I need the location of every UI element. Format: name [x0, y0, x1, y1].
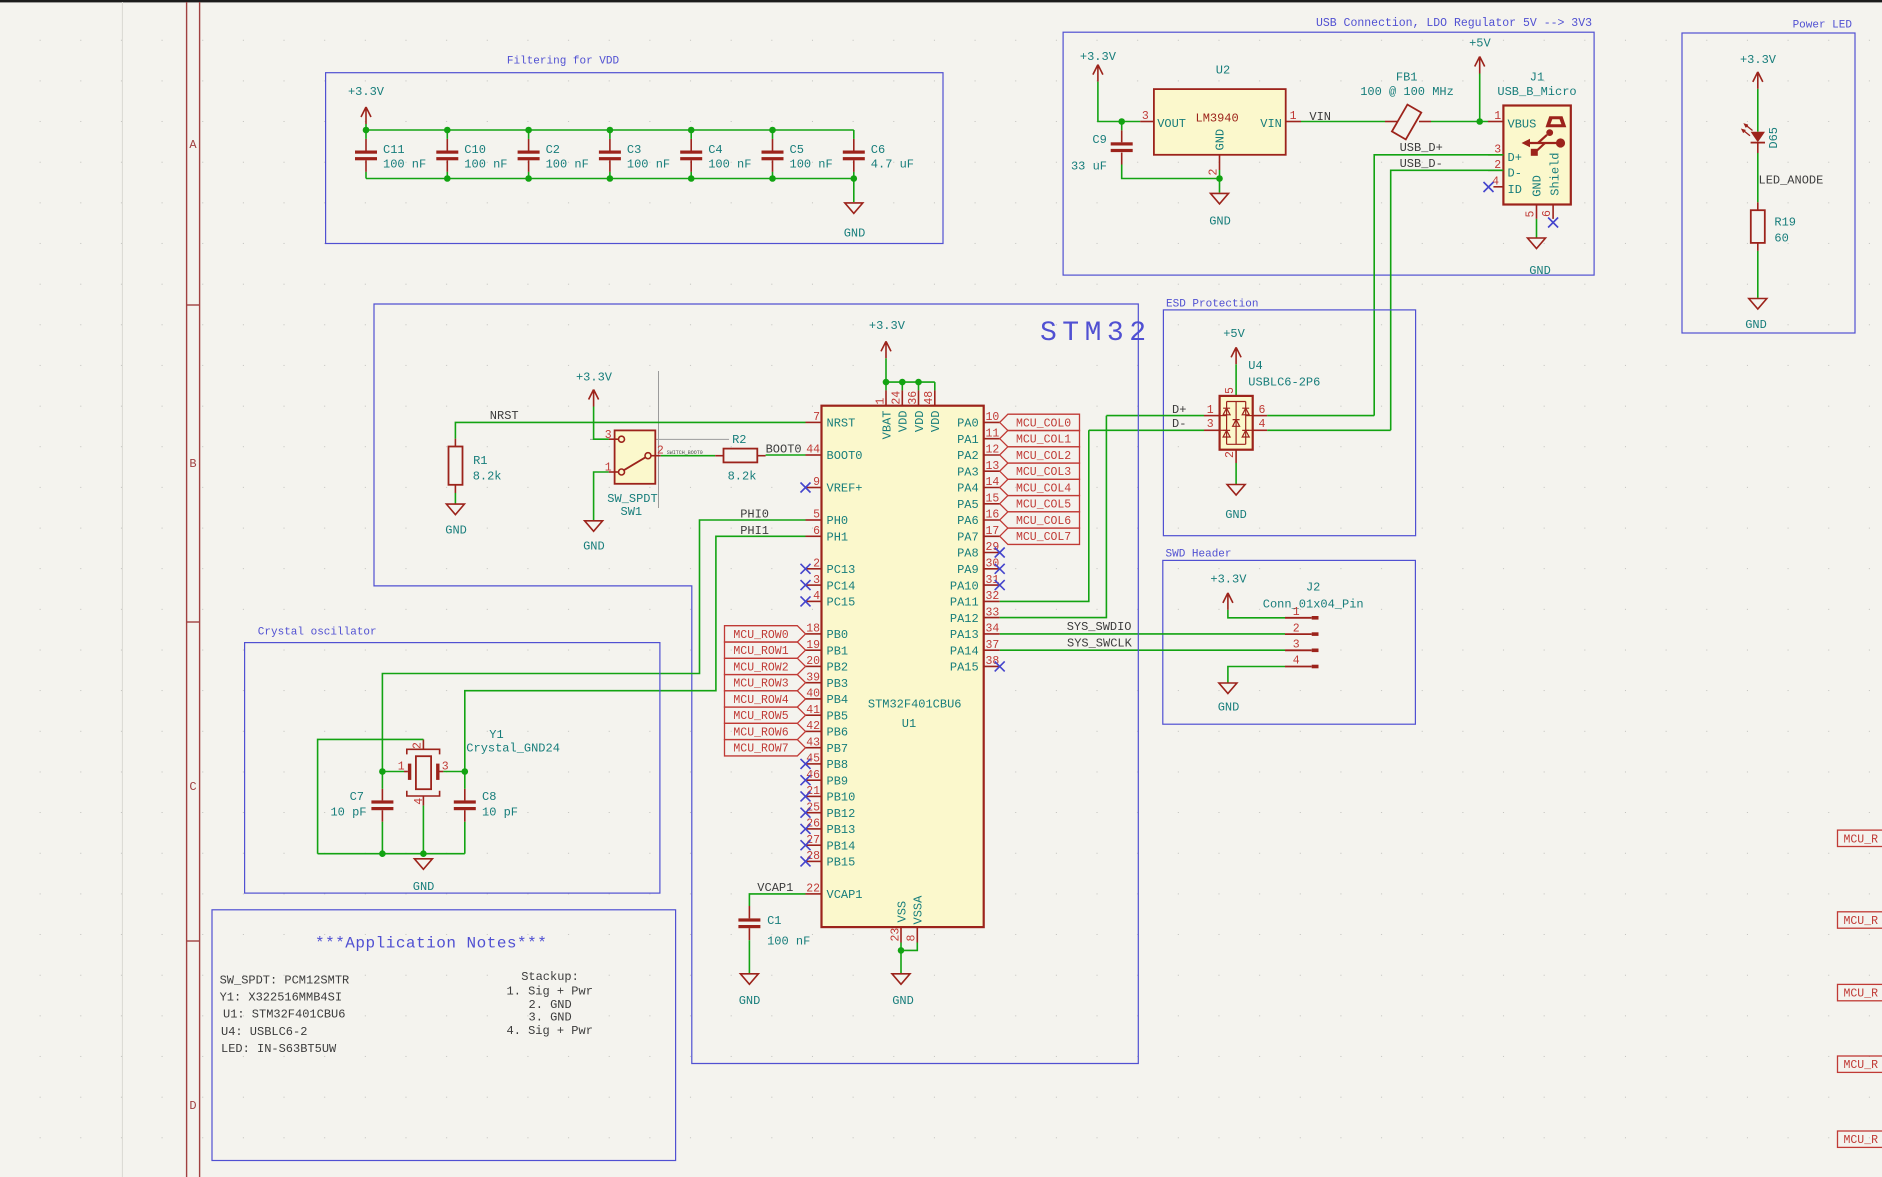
svg-text:29: 29: [986, 541, 1000, 554]
svg-text:NRST: NRST: [827, 417, 856, 431]
LED D65: [1751, 132, 1765, 143]
svg-text:GND: GND: [1225, 508, 1247, 522]
J1 pin 1 VBUS: [1488, 121, 1503, 123]
no-connect U1 PC14: [801, 580, 811, 590]
wire SYS_SWDIO to J2: [1000, 633, 1285, 635]
global label MCU_ROW4: [725, 691, 806, 707]
power +3.3V (LDO output): [1093, 65, 1103, 82]
svg-text:Y1: X322516MMB4SI: Y1: X322516MMB4SI: [220, 991, 342, 1005]
wire +3.3V to VDD rail: [885, 358, 887, 382]
svg-text:PA13: PA13: [950, 628, 979, 642]
global label MCU_ROW5: [725, 707, 806, 723]
global label MCU_COL4: [1000, 479, 1080, 495]
svg-text:C8: C8: [482, 790, 496, 804]
svg-text:VDD: VDD: [897, 411, 911, 433]
svg-text:GND: GND: [1531, 175, 1545, 197]
global label MCU_ROW6: [725, 723, 806, 739]
no-connect U1 PB13: [801, 824, 811, 834]
svg-text:SW1: SW1: [621, 505, 643, 519]
svg-text:7: 7: [813, 411, 820, 424]
wire +3.3V to SW1 pin3: [594, 407, 609, 440]
capacitor C9: [1111, 142, 1133, 145]
svg-text:MCU_R: MCU_R: [1844, 1059, 1879, 1072]
power +5V (USB): [1475, 57, 1485, 74]
svg-text:2: 2: [1293, 622, 1300, 635]
svg-text:STM32F401CBU6: STM32F401CBU6: [868, 698, 962, 712]
no-connect U1 PC15: [801, 596, 811, 606]
capacitor C4: [680, 151, 702, 154]
svg-text:LM3940: LM3940: [1196, 112, 1239, 126]
svg-text:SWD Header: SWD Header: [1166, 549, 1232, 561]
ground (SWD): [1219, 683, 1237, 694]
svg-text:43: 43: [806, 736, 820, 749]
wire VDD rail: [886, 381, 935, 383]
svg-text:PB2: PB2: [827, 661, 849, 675]
wire VIN to FB1: [1301, 121, 1385, 123]
svg-text:PB13: PB13: [827, 823, 856, 837]
U4 pin 2 GND: [1235, 450, 1237, 463]
no-connect U1 PA10: [995, 580, 1005, 590]
U1 pin 39 PB3: [806, 682, 822, 684]
svg-text:PH1: PH1: [827, 531, 849, 545]
svg-text:MCU_ROW1: MCU_ROW1: [733, 645, 788, 658]
svg-text:8: 8: [906, 935, 919, 942]
global label MCU_ROW2: [725, 658, 806, 674]
svg-text:18: 18: [806, 623, 820, 636]
svg-text:6: 6: [1259, 404, 1266, 417]
svg-text:R19: R19: [1774, 215, 1796, 229]
frame tick A/B: [187, 304, 200, 306]
wire USB_D+: [1374, 155, 1503, 416]
svg-text:100 @ 100 MHz: 100 @ 100 MHz: [1360, 85, 1454, 99]
wire C11 leads: [365, 130, 367, 139]
junction top C5: [769, 127, 776, 134]
ground (LED): [1749, 299, 1767, 310]
svg-text:100 nF: 100 nF: [627, 158, 670, 172]
svg-text:MCU_R: MCU_R: [1844, 915, 1879, 928]
wire C2 leads: [528, 130, 530, 139]
U1 pin 32 PA11: [984, 600, 1000, 602]
Y1 pin 1: [404, 771, 408, 773]
U1 pin 46 PB9: [806, 779, 822, 781]
svg-text:1. Sig + Pwr: 1. Sig + Pwr: [507, 985, 593, 999]
svg-text:6: 6: [813, 525, 820, 538]
svg-text:VBAT: VBAT: [880, 411, 894, 440]
box Power LED: [1682, 33, 1855, 333]
J2 pin 4: [1285, 666, 1312, 668]
svg-text:D65: D65: [1767, 127, 1781, 149]
svg-text:41: 41: [806, 704, 820, 717]
svg-text:21: 21: [806, 785, 820, 798]
sheet frame top border: [0, 0, 1882, 2]
global label MCU_COL5: [1000, 496, 1080, 512]
svg-text:3: 3: [1207, 418, 1214, 431]
svg-text:22: 22: [806, 883, 820, 896]
svg-text:5: 5: [1224, 387, 1237, 394]
no-connect U1 PB10: [801, 791, 811, 801]
svg-text:24: 24: [891, 391, 904, 405]
box Crystal oscillator: [245, 643, 660, 894]
U4 pin 4: [1253, 429, 1268, 431]
svg-text:+3.3V: +3.3V: [869, 319, 906, 333]
capacitor C10: [436, 151, 458, 154]
U1 pin 12 PA2: [984, 454, 1000, 456]
svg-text:100 nF: 100 nF: [383, 158, 426, 172]
wire C6 leads: [853, 130, 855, 139]
svg-text:8.2k: 8.2k: [473, 470, 502, 484]
U4 pin 3 (D- in): [1204, 429, 1220, 431]
svg-text:PB7: PB7: [827, 742, 849, 756]
ground (U1 VSS): [892, 974, 910, 985]
wire FB1 to VBUS: [1431, 121, 1488, 123]
svg-text:PA1: PA1: [957, 433, 979, 447]
svg-text:GND: GND: [1529, 264, 1551, 278]
svg-text:100 nF: 100 nF: [708, 158, 751, 172]
svg-text:GND: GND: [844, 227, 866, 241]
J1 pin 3 D+: [1488, 154, 1503, 156]
svg-text:VBUS: VBUS: [1508, 117, 1537, 131]
junction rail C7: [379, 850, 386, 857]
svg-text:2: 2: [412, 742, 425, 749]
wire C6 to GND: [853, 179, 855, 203]
svg-text:PA3: PA3: [957, 465, 979, 479]
U1 pin 13 PA3: [984, 470, 1000, 472]
svg-text:GND: GND: [445, 524, 467, 538]
no-connect U1 PB9: [801, 775, 811, 785]
global label MCU_COL3: [1000, 463, 1080, 479]
svg-text:MCU_ROW3: MCU_ROW3: [733, 678, 788, 691]
no-connect U1 PA9: [995, 564, 1005, 574]
svg-text:MCU_ROW7: MCU_ROW7: [733, 743, 788, 756]
svg-text:ESD Protection: ESD Protection: [1166, 299, 1258, 311]
svg-text:38: 38: [986, 655, 1000, 668]
svg-text:GND: GND: [1745, 318, 1767, 332]
svg-text:PA12: PA12: [950, 612, 979, 626]
U1 pin 16 PA6: [984, 519, 1000, 521]
svg-text:VIN: VIN: [1260, 117, 1282, 131]
no-connect J1 Shield: [1548, 218, 1558, 228]
global label MCU_COL2: [1000, 447, 1080, 463]
junction bottom C2: [525, 175, 532, 182]
svg-text:MCU_R: MCU_R: [1844, 988, 1879, 1001]
global label MCU_R (edge 2): [1838, 912, 1882, 928]
global label MCU_COL0: [1000, 414, 1080, 430]
resistor R2: [724, 449, 758, 463]
svg-text:34: 34: [986, 623, 1000, 636]
box Application Notes: [212, 910, 676, 1161]
svg-text:PB3: PB3: [827, 677, 849, 691]
svg-text:27: 27: [806, 834, 820, 847]
svg-text:44: 44: [806, 444, 820, 457]
global label MCU_ROW0: [725, 626, 806, 642]
no-connect U1 PB15: [801, 856, 811, 866]
svg-text:USB_D+: USB_D+: [1400, 141, 1443, 155]
svg-text:***Application Notes***: ***Application Notes***: [315, 935, 547, 953]
junction C8: [462, 768, 469, 775]
wire USB_D-: [1391, 170, 1504, 430]
ground (R1): [446, 504, 464, 514]
svg-text:PA15: PA15: [950, 661, 979, 675]
J2 pin 1: [1285, 617, 1312, 619]
svg-text:GND: GND: [739, 994, 761, 1008]
J1 pin 6 Shield: [1552, 205, 1554, 219]
U1 top pin 36 VDD: [918, 382, 920, 390]
wire C5 leads: [772, 130, 774, 139]
U1 pin 34 PA13: [984, 633, 1000, 635]
power +3.3V (filtering): [361, 107, 371, 124]
svg-text:12: 12: [986, 444, 1000, 457]
svg-text:U4: U4: [1248, 359, 1262, 373]
svg-text:C3: C3: [627, 143, 641, 157]
U1 pin 2 PC13: [806, 568, 822, 570]
no-connect U1 PA15: [995, 661, 1005, 671]
svg-text:A: A: [189, 138, 197, 152]
svg-text:Crystal_GND24: Crystal_GND24: [466, 742, 560, 756]
svg-text:C7: C7: [350, 790, 364, 804]
U1 pin 25 PB12: [806, 812, 822, 814]
svg-text:Filtering for VDD: Filtering for VDD: [507, 56, 620, 68]
U1 pin 40 PB4: [806, 698, 822, 700]
svg-text:MCU_COL1: MCU_COL1: [1016, 434, 1071, 447]
svg-text:100 nF: 100 nF: [790, 158, 833, 172]
svg-text:MCU_COL3: MCU_COL3: [1016, 466, 1071, 479]
no-connect U1 PB14: [801, 840, 811, 850]
wire PA11 to U4 pin3: [1089, 429, 1204, 431]
ic U4 USBLC6-2P6: [1220, 396, 1253, 450]
svg-text:PA7: PA7: [957, 531, 979, 545]
svg-text:32: 32: [986, 590, 1000, 603]
junction bottom C6: [851, 175, 858, 182]
wire J2 pin4 to GND: [1228, 667, 1285, 683]
ground (ESD): [1227, 485, 1245, 496]
svg-text:SYS_SWDIO: SYS_SWDIO: [1067, 620, 1132, 634]
capacitor C3: [599, 151, 621, 154]
wire SW1 pin1 to GND: [594, 472, 609, 520]
svg-text:4. Sig + Pwr: 4. Sig + Pwr: [507, 1024, 593, 1038]
svg-text:2: 2: [813, 558, 820, 571]
U1 pin 8 VSSA: [916, 927, 918, 942]
U1 pin 28 PB15: [806, 860, 822, 862]
U1 pin 15 PA5: [984, 503, 1000, 505]
svg-text:PB0: PB0: [827, 628, 849, 642]
svg-text:10 pF: 10 pF: [330, 805, 366, 819]
svg-text:C4: C4: [708, 143, 722, 157]
svg-text:MCU_ROW0: MCU_ROW0: [733, 629, 788, 642]
wire C3 leads: [609, 130, 611, 139]
svg-text:8.2k: 8.2k: [728, 469, 757, 483]
global label MCU_ROW7: [725, 740, 806, 756]
ground (C1): [740, 974, 758, 985]
global label MCU_R (edge 1): [1838, 830, 1882, 846]
U4 pin 6: [1253, 415, 1268, 417]
U1 pin 26 PB13: [806, 828, 822, 830]
svg-text:PB6: PB6: [827, 726, 849, 740]
svg-text:33 uF: 33 uF: [1071, 160, 1107, 174]
no-connect J1 ID: [1484, 182, 1494, 192]
svg-text:37: 37: [986, 639, 1000, 652]
wire VSS to GND: [900, 943, 902, 974]
svg-text:GND: GND: [1214, 129, 1228, 151]
svg-text:USBLC6-2P6: USBLC6-2P6: [1248, 376, 1320, 390]
svg-text:U1: STM32F401CBU6: U1: STM32F401CBU6: [223, 1008, 345, 1022]
wire LED to R19: [1757, 153, 1759, 202]
Y1 pin 2: [422, 739, 424, 749]
U1 pin 42 PB6: [806, 730, 822, 732]
wire C10 leads: [446, 130, 448, 139]
svg-text:MCU_COL0: MCU_COL0: [1016, 417, 1071, 430]
svg-text:23: 23: [889, 928, 902, 942]
wire VSSA join: [901, 943, 917, 951]
junction C7: [379, 768, 386, 775]
svg-text:C11: C11: [383, 143, 405, 157]
svg-text:C6: C6: [871, 143, 885, 157]
svg-text:48: 48: [923, 391, 936, 405]
junction top C4: [688, 127, 695, 134]
svg-text:+3.3V: +3.3V: [1080, 50, 1117, 64]
junction VDD 1: [883, 379, 890, 386]
svg-text:J2: J2: [1306, 580, 1320, 594]
wire +5V to VBUS: [1479, 74, 1481, 122]
wire bottom rail: [366, 178, 854, 180]
U1 pin 30 PA9: [984, 568, 1000, 570]
svg-text:PA8: PA8: [957, 547, 979, 561]
svg-text:2: 2: [1224, 451, 1237, 458]
box Filtering for VDD: [326, 73, 943, 244]
svg-text:+5V: +5V: [1223, 327, 1245, 341]
svg-text:16: 16: [986, 509, 1000, 522]
svg-text:R2: R2: [732, 433, 746, 447]
wire +3.3V to VOUT: [1098, 82, 1140, 122]
svg-text:MCU_R: MCU_R: [1844, 833, 1879, 846]
U1 top pin 48 VDD: [934, 382, 936, 390]
U1 top pin 1 VBAT: [885, 382, 887, 390]
svg-text:MCU_COL7: MCU_COL7: [1016, 531, 1071, 544]
junction C9 top: [1118, 118, 1125, 125]
svg-text:11: 11: [986, 427, 1000, 440]
junction top C10: [444, 127, 451, 134]
svg-text:5: 5: [1525, 211, 1538, 218]
wire +5V to U4: [1235, 364, 1237, 396]
svg-text:PB1: PB1: [827, 644, 849, 658]
wire SYS_SWCLK to J2: [1000, 649, 1285, 651]
capacitor C7: [371, 800, 393, 803]
switch SW1 SW_SPDT: [615, 430, 656, 483]
U1 pin 17 PA7: [984, 535, 1000, 537]
svg-text:4: 4: [813, 590, 820, 603]
ferrite bead FB1: [1385, 121, 1397, 123]
svg-text:2: 2: [1208, 169, 1221, 176]
junction top C11: [363, 127, 370, 134]
J2 pin 2: [1285, 633, 1312, 635]
wire crystal pin4 to rail: [422, 806, 424, 854]
U1 pin 23 VSS: [900, 927, 902, 942]
svg-text:42: 42: [806, 720, 820, 733]
svg-text:VREF+: VREF+: [827, 482, 863, 496]
sheet margin line: [121, 2, 123, 1177]
svg-text:GND: GND: [892, 994, 914, 1008]
svg-text:GND: GND: [1218, 701, 1240, 715]
wire J1 GND: [1536, 219, 1538, 238]
svg-text:+3.3V: +3.3V: [1740, 53, 1777, 67]
svg-text:1: 1: [874, 398, 887, 405]
svg-text:PB4: PB4: [827, 693, 849, 707]
svg-text:14: 14: [986, 476, 1000, 489]
svg-text:PA11: PA11: [950, 596, 979, 610]
U2 pin 2 GND: [1219, 155, 1221, 170]
svg-text:PA6: PA6: [957, 514, 979, 528]
global label MCU_ROW1: [725, 642, 806, 658]
wire U4 pin6 to USB_D+: [1267, 415, 1374, 417]
junction bottom C3: [607, 175, 614, 182]
svg-text:PC15: PC15: [827, 596, 856, 610]
svg-text:NRST: NRST: [490, 409, 519, 423]
svg-text:4: 4: [1259, 418, 1266, 431]
svg-text:3: 3: [605, 429, 612, 442]
svg-text:R1: R1: [473, 454, 487, 468]
wire C1 to GND: [748, 940, 750, 973]
resistor R19: [1751, 210, 1765, 243]
wire PH0 net to crystal: [382, 520, 805, 772]
frame tick C/D: [187, 940, 200, 942]
junction +5V VBUS: [1476, 118, 1483, 125]
no-connect U1 PB8: [801, 759, 811, 769]
J2 pin 3: [1285, 649, 1312, 651]
power +3.3V (BOOT0 switch): [589, 390, 599, 407]
svg-text:3: 3: [1293, 639, 1300, 652]
frame vertical line 1: [186, 2, 188, 1177]
U1 pin 22 VCAP1: [806, 893, 822, 895]
U4 internal diodes: [1220, 402, 1253, 445]
svg-text:PB15: PB15: [827, 856, 856, 870]
U1 pin 37 PA14: [984, 649, 1000, 651]
capacitor C1: [738, 918, 760, 921]
svg-text:PB10: PB10: [827, 791, 856, 805]
U1 pin 21 PB10: [806, 795, 822, 797]
svg-text:PA2: PA2: [957, 449, 979, 463]
svg-text:J1: J1: [1530, 71, 1544, 85]
svg-text:MCU_R: MCU_R: [1844, 1134, 1879, 1147]
svg-text:U4: USBLC6-2: U4: USBLC6-2: [221, 1025, 307, 1039]
svg-text:D+: D+: [1508, 151, 1522, 165]
ground (J1): [1528, 238, 1546, 249]
wire C4 leads: [690, 130, 692, 139]
frame vertical line 2: [199, 2, 201, 1177]
wire crystal ground rail: [318, 853, 465, 855]
junction VDD 2: [899, 379, 906, 386]
svg-text:30: 30: [986, 558, 1000, 571]
global label MCU_R (edge 5): [1838, 1131, 1882, 1147]
svg-text:26: 26: [806, 818, 820, 831]
svg-text:MCU_ROW4: MCU_ROW4: [733, 694, 788, 707]
SW1 pin 1: [609, 471, 619, 473]
U1 pin 20 PB2: [806, 665, 822, 667]
global label MCU_COL7: [1000, 528, 1080, 544]
svg-text:33: 33: [986, 606, 1000, 619]
svg-text:19: 19: [806, 639, 820, 652]
wire C7 leads: [381, 772, 383, 789]
capacitor C5: [762, 151, 784, 154]
svg-text:C2: C2: [546, 143, 560, 157]
svg-text:SYS_SWCLK: SYS_SWCLK: [1067, 636, 1133, 650]
svg-text:9: 9: [813, 476, 820, 489]
Y1 pin 3: [440, 771, 444, 773]
box ESD Protection: [1163, 310, 1415, 536]
svg-text:PA9: PA9: [957, 563, 979, 577]
global label MCU_R (edge 4): [1838, 1056, 1882, 1072]
svg-text:PA14: PA14: [950, 644, 979, 658]
U1 top pin 24 VDD: [901, 382, 903, 390]
svg-text:25: 25: [806, 801, 820, 814]
